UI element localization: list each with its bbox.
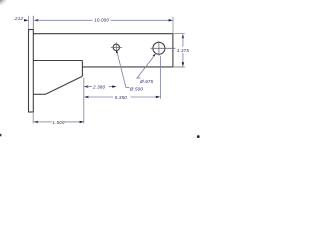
arrow pointing right at gusset corner extension (1.500): [80, 121, 84, 123]
wire: back plate bottom cap: [28, 111, 34, 113]
dimension line 1.500 right segment: [64, 121, 81, 123]
arrow pointing left at plate right face: [34, 19, 38, 21]
left edge artifact dot: [0, 134, 1, 137]
arrow pointing right at small hole center (2.380): [112, 85, 116, 87]
leader tail left of .212 arrow: [24, 19, 26, 21]
extension line above plate right face: [32, 16, 34, 30]
dimension line 2.380 left segment: [87, 86, 92, 88]
centerline horizontal of small hole: [111, 46, 122, 48]
dimension line 1.500 left segment: [36, 121, 52, 123]
svg-text:.212: .212: [14, 16, 24, 21]
extension line below big hole: [159, 56, 161, 99]
wire: back plate right edge: [32, 30, 34, 113]
dimension line 5.350 right segment: [131, 96, 158, 98]
arrow pointing right at plate left face: [24, 19, 28, 21]
svg-text:Ø.675: Ø.675: [139, 79, 153, 84]
svg-text:2.380: 2.380: [92, 84, 105, 89]
centerline vertical of big hole: [158, 41, 160, 56]
arrow at big hole end of leader: [153, 54, 156, 57]
extension line top right for 1.375: [173, 33, 185, 35]
leader line for hole diameter .500: [117, 51, 130, 87]
arrow at small hole end of leader: [116, 50, 118, 53]
arrow pointing left at gusset corner extension (2.380): [84, 85, 88, 87]
dimension line 5.350 left segment: [87, 96, 113, 98]
extension line from gusset corner down: [83, 78, 85, 124]
wire: arm top edge: [33, 33, 173, 35]
dimension line 2.380 right segment: [109, 86, 114, 88]
svg-text:10.000: 10.000: [94, 18, 109, 23]
leader line for hole diameter .675: [137, 55, 155, 79]
dimension line 1.375 lower segment: [182, 53, 184, 64]
arrow pointing right at big hole center (5.350): [156, 96, 160, 98]
wire: arm right edge: [172, 34, 174, 67]
arrow pointing right at part right end: [169, 19, 173, 21]
wire: arm bottom edge: [82, 66, 172, 68]
wire: gusset right edge: [81, 61, 83, 77]
wire: gusset bottom edge: [33, 93, 45, 95]
extension line below plate for 1.500: [32, 113, 34, 123]
corner artifact top-left: [0, 0, 7, 5]
wire: gusset top edge: [33, 60, 82, 62]
centerline vertical of small hole: [115, 42, 117, 53]
extension line at part right end above arm: [172, 17, 174, 34]
wire: back plate top cap: [28, 29, 34, 31]
svg-text:5.350: 5.350: [115, 95, 127, 100]
bottom-right artifact dot: [197, 135, 200, 138]
arrow pointing up for 1.375: [182, 34, 184, 38]
dimension line 10.000 left segment: [37, 19, 93, 21]
arrow pointing left at gusset corner extension (5.350): [84, 96, 88, 98]
hole big circle: [153, 42, 165, 54]
svg-text:1.500: 1.500: [52, 120, 64, 125]
arrow pointing left at plate right face (1.500): [34, 121, 38, 123]
wire: gusset diagonal edge: [46, 76, 83, 94]
dimension line 1.375 upper segment: [182, 37, 184, 47]
hole small circle: [113, 44, 119, 50]
extension line above plate left face: [28, 16, 30, 29]
svg-text:1.375: 1.375: [177, 48, 189, 53]
arrow pointing down for 1.375: [182, 62, 184, 66]
centerline horizontal of big hole: [151, 47, 176, 49]
extension line bottom right for 1.375: [173, 66, 185, 68]
svg-text:Ø.500: Ø.500: [129, 86, 143, 91]
wire: back plate left edge: [28, 30, 30, 113]
dimension line 10.000 right segment: [111, 19, 170, 21]
